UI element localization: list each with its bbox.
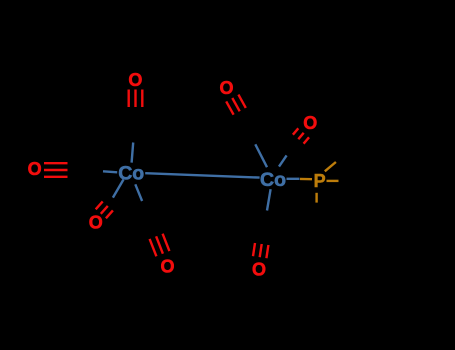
svg-text:O: O (252, 259, 266, 279)
bond Co1-C carbonyl A (blue half) (132, 143, 134, 163)
svg-text:O: O (160, 257, 174, 277)
svg-text:Co: Co (260, 169, 286, 191)
svg-text:P: P (314, 171, 326, 191)
svg-text:O: O (128, 70, 142, 90)
bond P-phenyl2 (orange half, right) (327, 180, 339, 182)
bond C#O carbonyl D triple (red half) (150, 234, 170, 257)
bond Co1-Co2 metal-metal (145, 173, 259, 177)
bond C#O carbonyl F triple (red half) (293, 128, 309, 143)
bond Co1-C carbonyl D (blue half) (135, 184, 142, 201)
bond Co2-P (blue half) (287, 178, 300, 180)
bond Co2-C carbonyl G (blue half) (267, 189, 271, 210)
bond Co1-C carbonyl C (blue half) (113, 180, 124, 198)
bond Co2-C carbonyl E (blue half) (255, 144, 267, 167)
svg-text:O: O (303, 113, 317, 133)
bond C#O carbonyl E triple (red half) (226, 95, 246, 115)
bond C#O carbonyl B triple (red half) (44, 163, 68, 177)
svg-text:O: O (219, 78, 233, 98)
bond C#O carbonyl G triple (red half) (253, 243, 268, 258)
bond P-phenyl1 (orange half, upper-right) (325, 162, 336, 171)
bond P-phenyl3 (orange half, down) (315, 193, 317, 203)
bond Co1-C carbonyl B (blue half) (103, 171, 117, 172)
bond Co2-C carbonyl F (blue half) (279, 155, 287, 166)
svg-text:O: O (89, 212, 103, 232)
svg-text:Co: Co (118, 163, 144, 185)
bond Co2-P (orange half) (300, 178, 312, 181)
bond C#O carbonyl C triple (red half) (96, 201, 113, 218)
svg-text:O: O (28, 159, 42, 179)
bond C#O carbonyl A triple (red half) (129, 90, 143, 108)
